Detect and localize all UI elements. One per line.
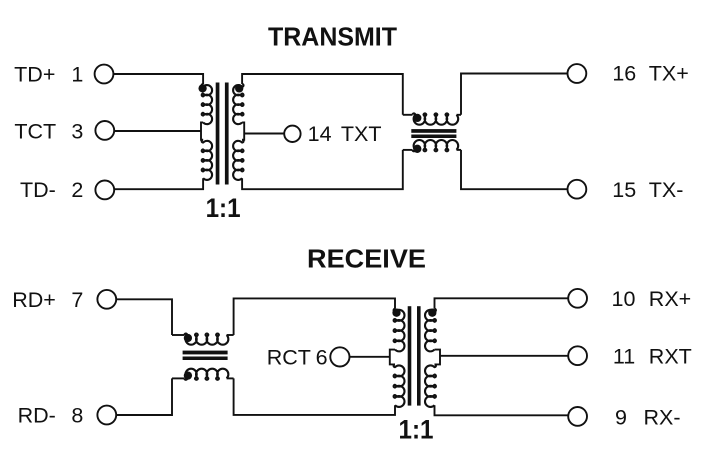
T2 secondary phase dot <box>428 309 436 317</box>
choke L1 top winding exit <box>457 114 462 116</box>
svg-text:RCT: RCT <box>267 345 311 369</box>
choke L2 bottom phase dot <box>184 371 192 379</box>
pin 6 RCT terminal <box>330 347 349 366</box>
transformer T1 secondary lower winding <box>233 140 243 180</box>
T2 primary phase dot <box>392 309 400 317</box>
svg-text:RXT: RXT <box>649 344 692 368</box>
transformer T2 primary upper winding <box>394 309 405 352</box>
wire choke L1 to pin 16 <box>461 74 568 115</box>
choke L1 core bar lower <box>411 135 456 139</box>
transformer T2 secondary lower winding <box>425 364 436 407</box>
wire pin8 to choke L2 <box>116 378 172 415</box>
T2 primary center-tap jog <box>390 350 395 365</box>
T1 primary phase dot <box>198 84 206 92</box>
wire pin6 to T2 primary center tap <box>350 356 390 358</box>
pin 10 terminal <box>568 289 587 308</box>
svg-text:6: 6 <box>316 345 328 369</box>
choke L2 bottom winding exit <box>227 377 234 379</box>
svg-text:TD-: TD- <box>20 178 56 202</box>
T2 core bar left <box>408 306 412 405</box>
choke L2 top phase dot <box>184 334 192 342</box>
T1 secondary center-tap jog <box>242 122 244 139</box>
svg-text:TX-: TX- <box>649 178 684 202</box>
svg-text:3: 3 <box>71 120 83 144</box>
wire T2 secondary bottom to pin 9 <box>435 405 569 415</box>
pin 8 terminal <box>97 406 116 425</box>
transformer T1 secondary upper winding <box>233 84 243 124</box>
transformer T1 primary upper winding <box>202 84 212 124</box>
pin 9 terminal <box>568 407 587 426</box>
wire pin7 to choke L2 <box>116 299 172 335</box>
T1 core bar right <box>225 83 229 185</box>
svg-text:RX-: RX- <box>644 406 681 430</box>
svg-text:TCT: TCT <box>14 120 56 144</box>
svg-text:TXT: TXT <box>341 122 382 146</box>
choke L1 bottom winding exit <box>457 149 462 151</box>
wire pin3 to T1 primary center tap <box>114 130 201 132</box>
svg-text:RD+: RD+ <box>12 288 56 312</box>
svg-text:TD+: TD+ <box>14 63 55 87</box>
T1 secondary phase dot <box>235 84 243 92</box>
choke L2 core bar lower <box>183 357 228 361</box>
T2 secondary center-tap jog <box>435 350 441 365</box>
wire pin1 to T1 primary top <box>113 74 203 84</box>
pin 15 terminal <box>568 180 587 199</box>
svg-text:2: 2 <box>71 178 83 202</box>
svg-text:1:1: 1:1 <box>206 193 241 223</box>
svg-text:15: 15 <box>612 178 636 202</box>
svg-text:14: 14 <box>308 122 332 146</box>
choke L1 top phase dot <box>413 114 421 122</box>
svg-text:RECEIVE: RECEIVE <box>307 246 426 274</box>
wire choke L2 to T2 primary bottom <box>234 378 395 415</box>
wire T1 secondary bottom to choke L1 <box>242 150 403 189</box>
svg-text:8: 8 <box>71 404 83 428</box>
choke L1 core bar upper <box>411 129 456 133</box>
svg-text:10: 10 <box>612 287 636 311</box>
pin 1 terminal <box>95 65 114 84</box>
T1 core bar left <box>216 83 220 185</box>
choke L1 top winding entry <box>403 114 413 116</box>
choke L2 core bar upper <box>183 351 228 355</box>
svg-text:16: 16 <box>612 62 636 86</box>
choke L2 top winding <box>184 334 228 345</box>
pin 7 terminal <box>97 290 116 309</box>
T1 primary center-tap jog <box>201 122 203 139</box>
choke L1 bottom phase dot <box>413 145 421 153</box>
transformer T1 primary lower winding <box>202 140 212 180</box>
transformer T2 secondary upper winding <box>425 309 436 352</box>
wire choke L1 to pin 15 <box>461 150 568 189</box>
pin 2 terminal <box>95 181 114 200</box>
transformer T2 primary lower winding <box>394 364 405 407</box>
choke L1 bottom winding <box>413 140 459 151</box>
choke L1 bottom winding entry <box>403 149 413 151</box>
choke L2 bottom winding entry <box>172 377 184 379</box>
svg-text:RX+: RX+ <box>649 287 691 311</box>
wire T2 secondary tap to pin 11 <box>440 355 568 357</box>
wire T1 tap to pin 14 <box>244 133 284 135</box>
svg-text:9: 9 <box>615 406 627 430</box>
svg-text:11: 11 <box>613 344 635 368</box>
pin 14 TXT terminal <box>284 126 300 142</box>
T2 core bar right <box>417 306 421 405</box>
svg-text:TRANSMIT: TRANSMIT <box>268 24 397 52</box>
wire pin2 to T1 primary bottom <box>114 178 203 189</box>
choke L2 top winding entry <box>172 334 184 336</box>
wire choke L2 to T2 primary top <box>234 298 395 335</box>
pin 11 terminal <box>568 346 587 365</box>
choke L2 top winding exit <box>227 334 234 336</box>
svg-text:1:1: 1:1 <box>399 415 434 445</box>
choke L1 top winding <box>413 113 459 124</box>
svg-text:TX+: TX+ <box>649 62 689 86</box>
wire T1 secondary top to choke L1 <box>242 74 403 115</box>
choke L2 bottom winding <box>184 369 228 380</box>
pin 16 terminal <box>568 64 587 83</box>
wire T2 secondary top to pin 10 <box>435 298 569 309</box>
svg-text:1: 1 <box>71 63 83 87</box>
svg-text:7: 7 <box>71 288 83 312</box>
svg-text:RD-: RD- <box>18 404 56 428</box>
pin 3 terminal <box>95 121 114 140</box>
